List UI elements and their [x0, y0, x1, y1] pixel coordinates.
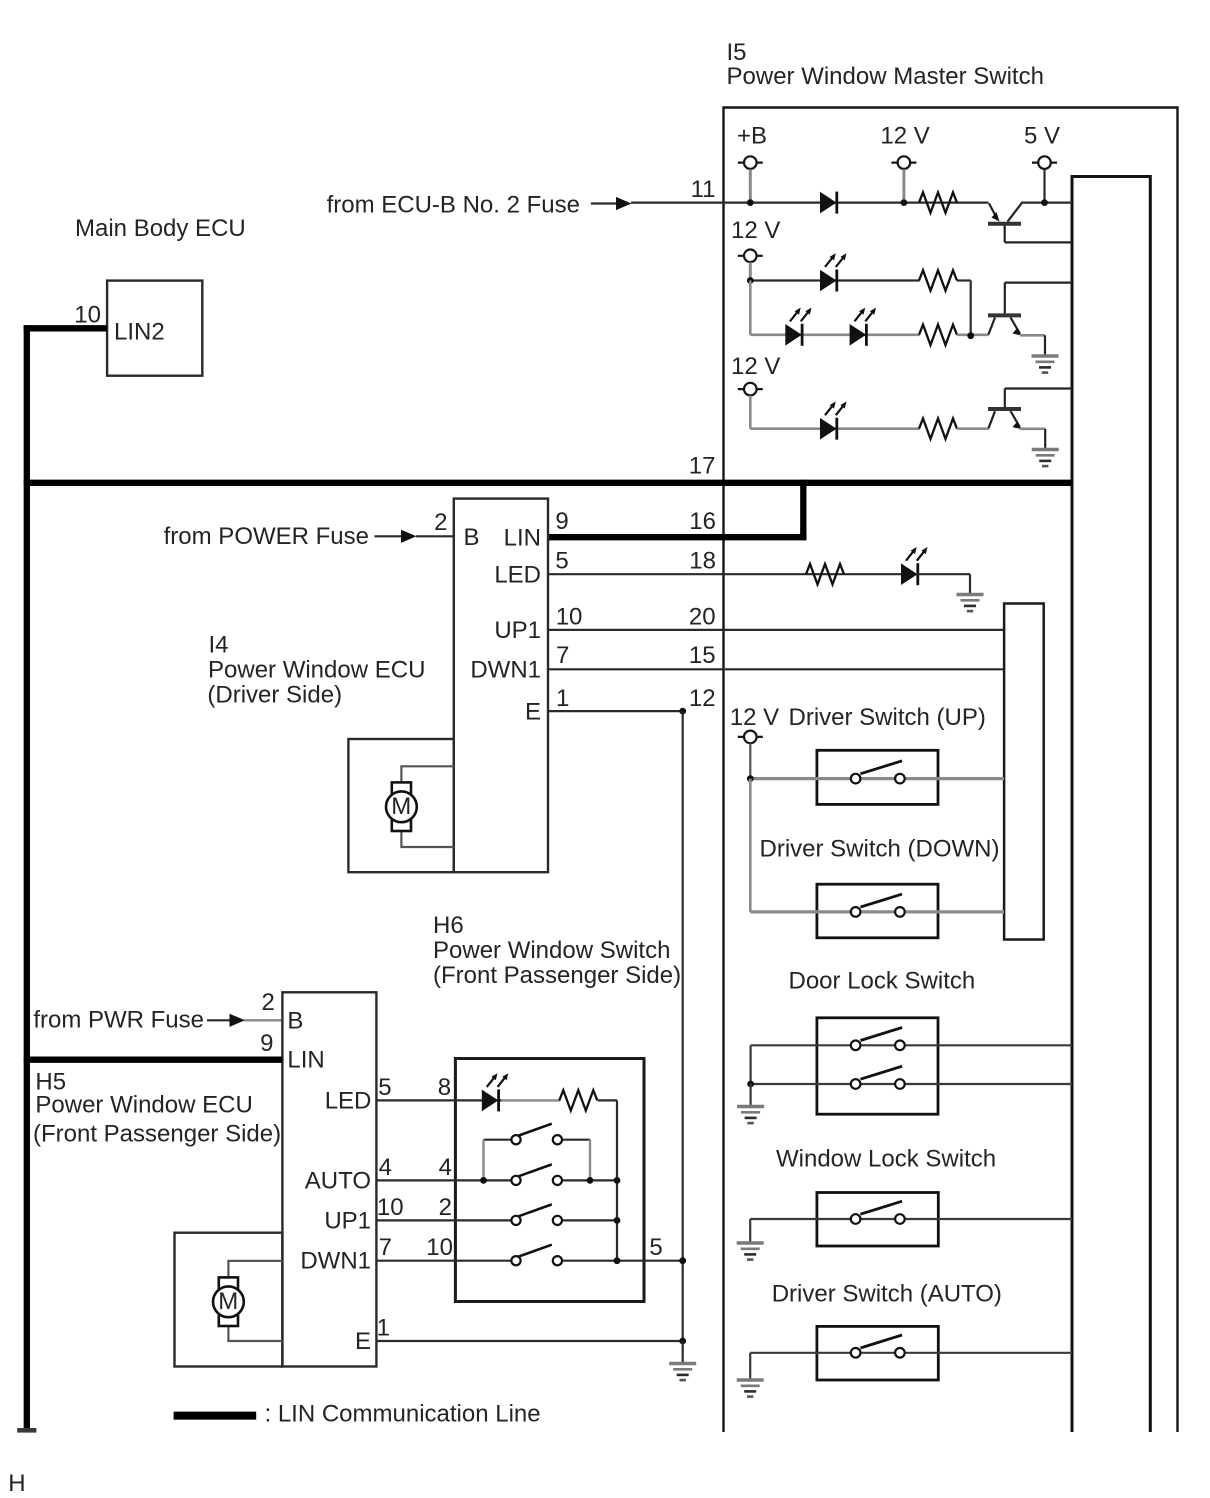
svg-text:10: 10	[426, 1234, 453, 1261]
svg-text:Power Window ECU: Power Window ECU	[208, 657, 425, 684]
svg-text:from ECU-B No. 2 Fuse: from ECU-B No. 2 Fuse	[327, 192, 580, 219]
transistor Q2 (NPN)	[988, 283, 1072, 355]
wire LIN H5 (thick)	[24, 1057, 283, 1063]
wire row2a right lead	[957, 279, 971, 281]
svg-text:Driver Switch (AUTO): Driver Switch (AUTO)	[772, 1281, 1002, 1308]
wire auto ground stub	[749, 1353, 751, 1379]
wire switch A right drop	[589, 1140, 591, 1181]
wire UP1 row right	[562, 1219, 617, 1221]
diode D1	[820, 192, 837, 214]
LED D2 arrows	[825, 253, 847, 267]
switch box DOWN	[817, 884, 938, 938]
svg-text:8: 8	[438, 1074, 451, 1101]
wire door lock row2	[751, 1083, 1072, 1085]
connector LIN2 box	[107, 281, 202, 376]
LED D6	[482, 1089, 499, 1111]
ground G3	[957, 595, 984, 612]
switch box UP	[817, 750, 938, 804]
svg-text:12 V: 12 V	[730, 704, 779, 731]
wire DWN1 row right (5)	[562, 1260, 683, 1262]
svg-text:4: 4	[439, 1154, 452, 1181]
wire UP1 row	[376, 1219, 511, 1221]
svg-text:H: H	[8, 1470, 25, 1497]
wire 11	[631, 202, 989, 204]
wire row2b right lead	[957, 333, 989, 336]
svg-text:4: 4	[379, 1154, 392, 1181]
junction dot E rail	[679, 1338, 686, 1345]
resistor R5	[559, 1090, 597, 1110]
svg-text:11: 11	[691, 176, 716, 203]
switch H6 box	[455, 1059, 644, 1302]
svg-text:LED: LED	[494, 562, 541, 589]
svg-text:AUTO: AUTO	[305, 1167, 371, 1194]
svg-text:from PWR Fuse: from PWR Fuse	[33, 1007, 204, 1034]
svg-text:(Front Passenger Side): (Front Passenger Side)	[433, 962, 681, 989]
junction dot A left	[480, 1177, 487, 1184]
svg-text:I5: I5	[727, 39, 747, 66]
wire switch A right stub	[562, 1139, 590, 1141]
switch C	[511, 1204, 562, 1225]
svg-text:16: 16	[689, 508, 716, 535]
wire 20	[548, 629, 1004, 631]
svg-text:Main Body ECU: Main Body ECU	[75, 215, 246, 242]
wire 12V row3 drop	[749, 396, 752, 429]
svg-text:12: 12	[689, 685, 716, 712]
ground G6	[669, 1364, 696, 1381]
wire E (12)	[548, 710, 683, 712]
svg-text:Driver Switch (UP): Driver Switch (UP)	[789, 704, 986, 731]
wire resistor tail	[598, 1099, 617, 1101]
wire door lock row1	[751, 1044, 1072, 1046]
svg-text:15: 15	[689, 642, 716, 669]
resistor R2	[919, 270, 957, 290]
junction dot 12V/11	[901, 199, 908, 206]
ground G1	[1032, 356, 1059, 373]
ground G4	[737, 1107, 764, 1124]
svg-text:2: 2	[439, 1194, 452, 1221]
junction dot 5/E rail	[679, 1257, 686, 1264]
connector strip (right internal)	[1072, 177, 1150, 1433]
terminal +B	[738, 156, 763, 169]
svg-text:(Driver Side): (Driver Side)	[207, 682, 342, 709]
switch D	[511, 1245, 562, 1266]
wire door lock ground stub	[749, 1084, 751, 1105]
wire door lock left drop	[749, 1045, 751, 1084]
terminal 5V	[1032, 156, 1057, 169]
wire LIN trunk vertical	[24, 325, 30, 1431]
terminal 12V row2	[738, 250, 763, 263]
LED D7	[901, 563, 918, 585]
motor M2	[213, 1277, 244, 1326]
svg-text:UP1: UP1	[494, 617, 541, 644]
motor box H5	[175, 1233, 283, 1367]
LED D3	[785, 324, 802, 346]
junction dot DWN1 rail	[614, 1257, 621, 1264]
ground G2	[1032, 450, 1059, 467]
svg-text:Driver Switch (DOWN): Driver Switch (DOWN)	[760, 836, 1000, 863]
wire 16 riser	[800, 480, 806, 541]
junction dot row2 left	[747, 277, 754, 284]
wire 15	[548, 668, 1004, 670]
switch A	[511, 1124, 562, 1145]
LED D6 arrows	[487, 1073, 509, 1087]
wire 18	[548, 573, 902, 575]
resistor R1	[919, 192, 957, 212]
svg-text:7: 7	[379, 1234, 392, 1261]
svg-text:+B: +B	[737, 123, 767, 150]
svg-text:from POWER Fuse: from POWER Fuse	[164, 523, 369, 550]
wire motor2 top	[228, 1261, 282, 1278]
ECU H5 box	[282, 992, 376, 1366]
resistor R4	[919, 419, 957, 439]
wire DOWN row	[750, 910, 1004, 913]
LED D7 arrows	[906, 547, 928, 561]
svg-text:12 V: 12 V	[880, 123, 929, 150]
LED D4 arrows	[855, 308, 877, 322]
svg-text:5: 5	[378, 1074, 391, 1101]
svg-text:7: 7	[556, 642, 569, 669]
switch box Window Lock	[817, 1193, 938, 1247]
wire E row	[376, 1340, 682, 1342]
arrow head	[616, 197, 632, 210]
switch DOWN	[851, 894, 905, 917]
svg-text:I4: I4	[209, 632, 229, 659]
wire UP-DOWN drop	[749, 779, 752, 912]
wire H6 rail vertical	[616, 1100, 618, 1260]
wire 12V row2 drop	[749, 262, 752, 280]
junction dot 5V/collector	[1041, 199, 1048, 206]
svg-text:DWN1: DWN1	[300, 1248, 371, 1275]
junction dot door lock	[747, 1081, 754, 1088]
motor box I4	[348, 739, 453, 872]
svg-text:9: 9	[260, 1030, 273, 1057]
wire PWR fuse lead	[207, 1019, 231, 1021]
wire window lock row	[750, 1218, 1072, 1220]
svg-text:Door Lock Switch: Door Lock Switch	[789, 967, 976, 994]
svg-text:1: 1	[556, 685, 569, 712]
resistor R3	[919, 325, 957, 345]
switch door lock 1	[851, 1028, 905, 1051]
svg-text:E: E	[355, 1328, 371, 1355]
wire 12V row1 drop	[902, 169, 905, 202]
svg-text:17: 17	[689, 453, 716, 480]
wire +B drop	[749, 169, 752, 202]
svg-text:DWN1: DWN1	[470, 657, 541, 684]
wire row2b	[750, 333, 919, 336]
svg-text:LIN: LIN	[504, 525, 541, 552]
terminal 12V row1	[891, 156, 916, 169]
wire AUTO row right	[562, 1179, 617, 1181]
switch box Door Lock	[817, 1018, 938, 1114]
wire 12V driver drop	[749, 743, 751, 778]
arrow head PWR fuse	[230, 1014, 246, 1027]
connector I5 outline	[724, 108, 1178, 1433]
svg-text:Power Window Master Switch: Power Window Master Switch	[727, 63, 1044, 90]
switch window lock	[851, 1201, 905, 1224]
svg-text:2: 2	[434, 509, 447, 536]
svg-text:5: 5	[649, 1234, 662, 1261]
svg-text:9: 9	[555, 508, 568, 535]
wire E rail vertical	[682, 711, 684, 1341]
LED D5 arrows	[825, 402, 847, 416]
resistor R6	[806, 564, 844, 584]
svg-text:Power Window ECU: Power Window ECU	[35, 1091, 252, 1118]
wire 5V drop	[1043, 169, 1045, 202]
wire AUTO row	[376, 1179, 511, 1181]
svg-text:UP1: UP1	[324, 1207, 371, 1234]
LED D4	[850, 324, 867, 346]
wire LED to resistor	[502, 1099, 560, 1101]
svg-text:10: 10	[74, 302, 101, 329]
wire 18 tail	[918, 573, 970, 575]
wire E ground stub	[682, 1341, 684, 1362]
wire row3	[750, 427, 919, 430]
svg-text:10: 10	[556, 604, 583, 631]
svg-text:LED: LED	[325, 1087, 372, 1114]
wire motor1 top	[401, 766, 453, 782]
terminal 12V driver	[738, 731, 763, 744]
svg-text:10: 10	[377, 1194, 404, 1221]
motor M1	[386, 782, 417, 831]
svg-text:E: E	[525, 698, 541, 725]
LED D2	[820, 270, 837, 292]
switch auto	[851, 1335, 905, 1358]
LED D5	[820, 418, 837, 440]
wire LED pin 5-8	[376, 1099, 501, 1101]
svg-text:20: 20	[689, 604, 716, 631]
ground G7	[737, 1380, 764, 1397]
junction dot E-I4	[679, 708, 686, 715]
wire 11 right segment	[1021, 202, 1072, 204]
wire DWN1 row	[376, 1260, 511, 1262]
wire arrow lead	[591, 202, 617, 204]
wire row2a	[750, 279, 919, 281]
LED D3 arrows	[790, 308, 812, 322]
wire motor2 bottom	[228, 1326, 282, 1341]
junction dot A right	[587, 1177, 594, 1184]
switch box AUTO	[817, 1326, 938, 1380]
wire switch A left drop	[482, 1140, 484, 1181]
switch B	[511, 1164, 562, 1185]
wire 17 (LIN trunk)	[24, 480, 1072, 486]
wire LIN trunk horizontal (LIN2)	[24, 325, 107, 331]
wire 18 drop	[969, 574, 971, 593]
switch door lock 2	[851, 1066, 905, 1089]
transistor Q3 (NPN)	[988, 389, 1072, 449]
svg-text:(Front Passenger Side): (Front Passenger Side)	[33, 1120, 281, 1147]
svg-text:Power Window Switch: Power Window Switch	[433, 937, 670, 964]
svg-text:LIN2: LIN2	[114, 319, 165, 346]
svg-text:B: B	[287, 1008, 303, 1035]
wire LIN trunk end cap	[17, 1428, 36, 1433]
wire row2b vertical	[749, 281, 752, 335]
svg-text:5 V: 5 V	[1024, 123, 1060, 150]
svg-text:LIN: LIN	[287, 1047, 324, 1074]
svg-text:18: 18	[689, 548, 716, 575]
terminal 12V row3	[738, 383, 763, 396]
wire POWER fuse lead	[375, 535, 403, 537]
wire motor1 bottom	[401, 831, 453, 847]
wire row3 right lead	[957, 427, 989, 430]
wire switch A left stub	[484, 1139, 512, 1141]
ground G5	[737, 1243, 764, 1260]
ECU I4 box	[454, 499, 548, 873]
wire pin B I4	[416, 535, 454, 537]
junction dot AUTO rail	[614, 1177, 621, 1184]
wire auto row	[750, 1352, 1072, 1354]
connector block (UP/DOWN)	[1004, 604, 1044, 940]
svg-text:5: 5	[555, 548, 568, 575]
legend LIN line sample	[174, 1412, 257, 1420]
junction dot row2b	[967, 332, 974, 339]
svg-text:12 V: 12 V	[731, 353, 780, 380]
svg-text:H6: H6	[433, 912, 464, 939]
svg-text:1: 1	[377, 1315, 390, 1342]
wire 16 (LIN I4 to trunk)	[548, 534, 806, 540]
transistor Q1 (PNP)	[988, 203, 1072, 242]
junction dot +B/11	[747, 199, 754, 206]
svg-text:: LIN Communication Line: : LIN Communication Line	[265, 1401, 541, 1428]
svg-text:Window Lock Switch: Window Lock Switch	[776, 1146, 996, 1173]
svg-text:B: B	[464, 524, 480, 551]
svg-text:12 V: 12 V	[731, 217, 780, 244]
arrow head POWER fuse	[401, 530, 417, 543]
wire pin B H5	[244, 1019, 282, 1021]
wire window lock ground stub	[749, 1219, 751, 1242]
switch UP	[851, 761, 905, 784]
junction dot UP	[747, 775, 754, 782]
wire row2a down drop	[970, 281, 972, 336]
svg-text:2: 2	[261, 989, 274, 1016]
wire UP row	[750, 777, 1004, 780]
junction dot UP1 rail	[614, 1217, 621, 1224]
